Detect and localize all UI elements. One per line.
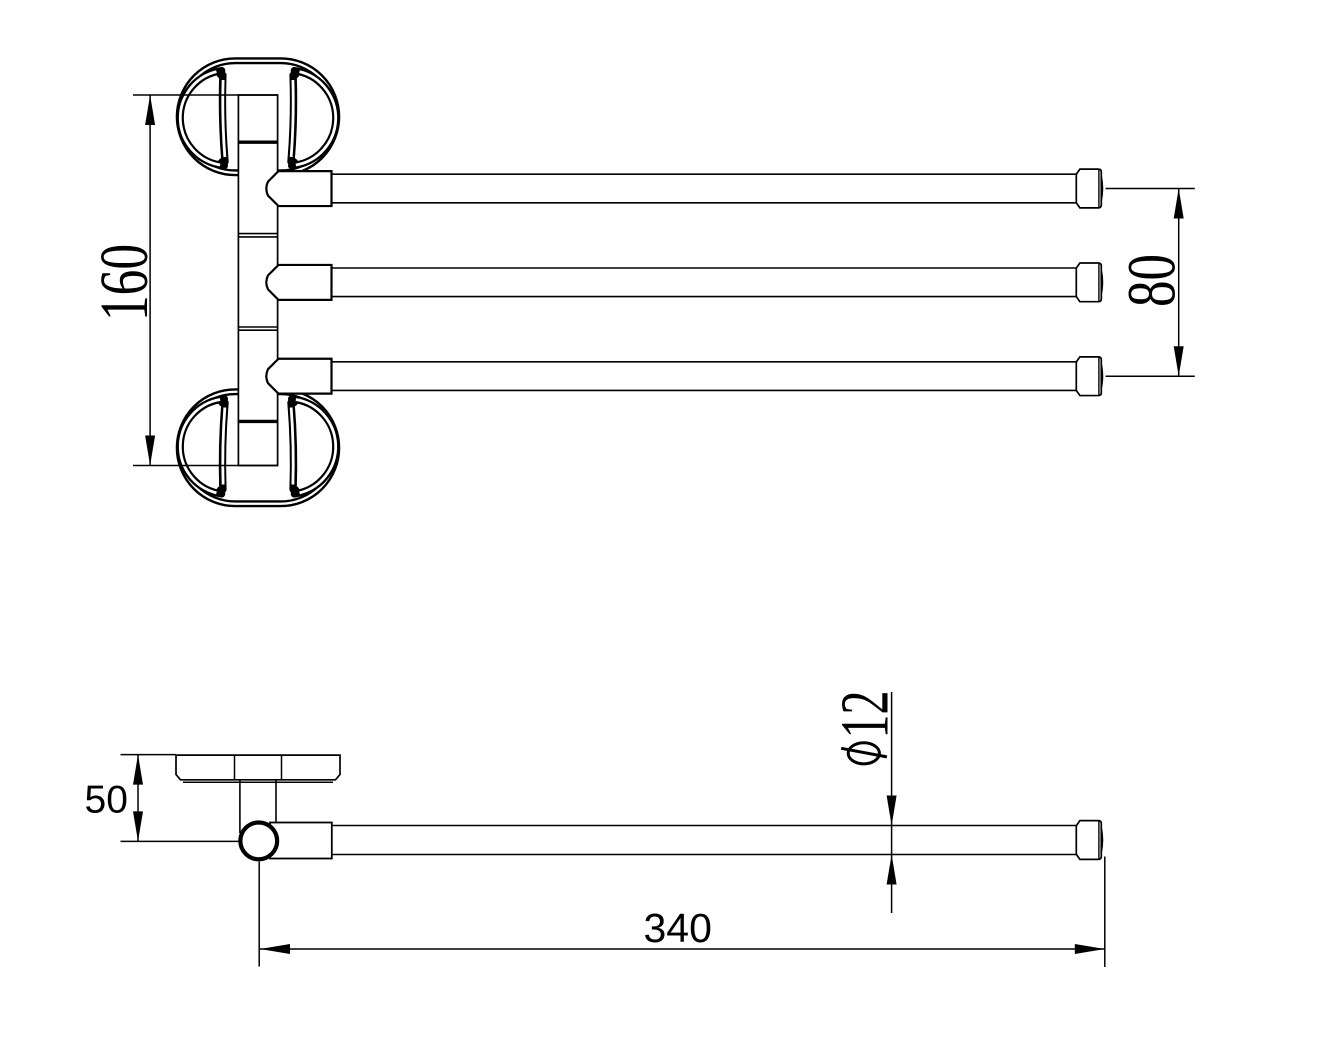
arm 3 bar bbox=[332, 361, 1077, 363]
svg-text:160: 160 bbox=[86, 244, 162, 321]
dimension 160 : extension line top bbox=[133, 94, 278, 96]
dimension 50 : extension line bottom bbox=[121, 840, 239, 842]
wall plate top : outer rim (double line stadium) bbox=[179, 61, 337, 173]
side view plate silhouette line right bbox=[281, 755, 283, 780]
side view wall plate bbox=[176, 755, 340, 780]
svg-text:340: 340 bbox=[644, 905, 712, 951]
arm 1 pivot connector bbox=[266, 171, 331, 206]
side view plate silhouette line left bbox=[234, 755, 236, 780]
svg-text:80: 80 bbox=[1114, 254, 1190, 307]
dimension 80 : arrow down bbox=[1174, 346, 1184, 376]
wall plate bottom (mirrored copy) bbox=[179, 392, 337, 504]
dimension 80 : extension line top bbox=[1106, 188, 1195, 190]
post hub edge (top plate) bbox=[238, 140, 277, 143]
side stem left line bbox=[239, 780, 241, 833]
post hub edge (bottom plate) bbox=[238, 420, 277, 423]
dimension 160 : dimension line bbox=[149, 95, 151, 466]
side view plate bottom second line bbox=[183, 781, 333, 783]
post joint line 1 (double) bbox=[238, 233, 277, 235]
arm 2 pivot connector bbox=[266, 265, 331, 300]
side bar bbox=[332, 825, 1077, 827]
dimension 160 : extension line bottom bbox=[133, 465, 278, 467]
side housing block bbox=[270, 823, 332, 859]
dimension d12 : arrow down onto bar bbox=[887, 796, 897, 826]
dimension 160 : arrow up bbox=[145, 95, 155, 125]
left crescent cutout of top plate bbox=[180, 71, 225, 166]
svg-text:12: 12 bbox=[827, 691, 903, 739]
dimension 340 : dimension line bbox=[260, 948, 1105, 950]
dimension 50 : dimension line bbox=[137, 755, 139, 842]
dimension 50 : arrow up bbox=[133, 755, 143, 785]
dimension 340 : arrow left bbox=[260, 944, 290, 954]
dimension 50 : arrow down bbox=[133, 811, 143, 841]
side pivot circle bbox=[240, 823, 277, 860]
dimension d12 : dimension line bbox=[891, 692, 893, 913]
mounting post bbox=[238, 95, 277, 466]
arm 3 end cap bbox=[1076, 357, 1102, 396]
post joint line 2 (double) bbox=[238, 326, 277, 328]
arm 2 bar bbox=[332, 267, 1077, 269]
dimension 50 : extension line top bbox=[121, 754, 177, 756]
dimension 340 : arrow right bbox=[1075, 944, 1105, 954]
dimension d12 : diameter symbol bbox=[841, 743, 887, 764]
centerline below pivot bbox=[258, 862, 260, 967]
dimension 340 : right extension line bbox=[1104, 857, 1106, 968]
dimension 80 : arrow up bbox=[1174, 189, 1184, 219]
dimension 160 : arrow down bbox=[145, 436, 155, 466]
side end cap bbox=[1076, 821, 1102, 860]
arm 1 bar bbox=[332, 173, 1077, 175]
dimension 80 : dimension line bbox=[1178, 189, 1180, 377]
svg-text:50: 50 bbox=[85, 779, 128, 822]
arm 3 pivot connector bbox=[266, 359, 331, 394]
dimension 80 : extension line bottom bbox=[1106, 375, 1195, 377]
arm 2 end cap bbox=[1076, 263, 1102, 302]
side stem right line bbox=[275, 780, 277, 823]
dimension d12 : arrow up onto bar bbox=[887, 855, 897, 885]
right crescent cutout of top plate bbox=[291, 71, 336, 166]
